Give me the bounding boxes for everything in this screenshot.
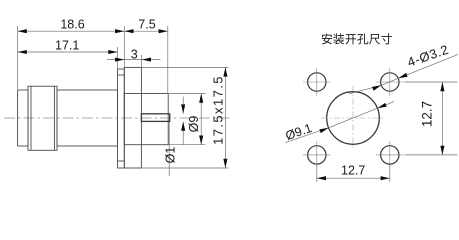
svg-text:17.1: 17.1 xyxy=(55,39,79,53)
4-O3.2 leader to text xyxy=(398,54,458,78)
ext line x167.8 xyxy=(167,26,169,93)
svg-text:12.7: 12.7 xyxy=(341,164,365,178)
dim 3 line left tail xyxy=(107,59,124,61)
arrow dim 3 left xyxy=(115,58,124,62)
center marks xyxy=(303,68,404,169)
title char 装 xyxy=(333,33,344,44)
O9.1 leader tail xyxy=(286,128,329,143)
title char 尺 xyxy=(369,34,380,44)
ext line hole BR down xyxy=(389,166,391,183)
arrow O9.1 upper-right xyxy=(377,103,387,110)
svg-text:Ø9: Ø9 xyxy=(187,116,201,133)
4-O3.2 leader xyxy=(349,54,458,93)
O9 ext line top xyxy=(169,93,206,95)
ext line pin end xyxy=(168,122,170,176)
title char 开 xyxy=(345,34,356,44)
dim 17.1 line xyxy=(18,51,118,53)
title char 安 xyxy=(322,33,332,44)
arrow dim 12.7 right bottom xyxy=(440,146,444,155)
arrow dim O1 top xyxy=(181,104,185,113)
svg-text:17.5x17.5: 17.5x17.5 xyxy=(211,75,226,145)
center pin xyxy=(141,114,169,122)
arrow dim O1 bottom xyxy=(181,122,185,131)
crosshair hole BR horizontal xyxy=(376,154,404,156)
arrow dim 18.6 right xyxy=(115,29,124,33)
gasket inner line top xyxy=(118,74,125,76)
main barrel xyxy=(57,90,118,146)
dimension texts left view xyxy=(55,17,225,163)
front cylinder xyxy=(18,90,28,146)
big circle O9.1 xyxy=(327,92,380,145)
svg-text:4-Ø3.2: 4-Ø3.2 xyxy=(405,42,450,70)
dim 17.5x17.5 line xyxy=(224,67,226,168)
dim 3 line middle xyxy=(124,59,141,61)
nut chamfer left xyxy=(30,86,32,150)
title char 孔 xyxy=(357,34,368,45)
right 12.7 dimension xyxy=(405,82,458,155)
17.5 ext line top xyxy=(141,66,228,68)
ext line hole BL down xyxy=(316,166,318,183)
svg-text:3: 3 xyxy=(131,47,138,61)
gasket xyxy=(118,69,125,168)
arrow dim 3 right xyxy=(142,58,151,62)
dim 12.7 right line xyxy=(441,82,443,155)
rear cylinder xyxy=(124,94,168,145)
svg-text:7.5: 7.5 xyxy=(138,17,155,31)
arrow 4-O3.2 upper-right xyxy=(398,73,408,80)
arrow dim O9 bottom xyxy=(199,136,203,145)
O9.1 leader xyxy=(286,102,395,143)
ext line x124.3 xyxy=(123,26,125,67)
arrow dim 7.5 right xyxy=(159,29,168,33)
big circle centerline horizontal xyxy=(321,117,385,119)
crosshair hole TL vertical xyxy=(316,68,318,96)
ext line hole TR right xyxy=(405,81,458,83)
arrow dim 17.5 bottom xyxy=(223,159,227,168)
arrow dim O9 top xyxy=(199,94,203,103)
ext line x117.5 xyxy=(117,47,119,69)
ext line hole BR right xyxy=(405,154,458,156)
hole bottom-left xyxy=(308,146,326,164)
nut chamfer right xyxy=(53,86,55,150)
crosshair hole BL vertical xyxy=(316,141,318,169)
title 安装开孔尺寸 xyxy=(322,33,392,44)
ext line x141.4 xyxy=(140,55,142,67)
gasket inner line bottom xyxy=(118,160,125,162)
svg-text:12.7: 12.7 xyxy=(420,101,435,127)
arrow dim 12.7 bottom left xyxy=(317,176,326,180)
svg-text:18.6: 18.6 xyxy=(60,17,84,31)
arrow dim 12.7 right top xyxy=(440,82,444,91)
dim 3 line right tail xyxy=(141,59,160,61)
crosshair hole TL horizontal xyxy=(303,81,331,83)
arrow dim 12.7 bottom right xyxy=(381,176,390,180)
4-O3.2 line through hole xyxy=(381,78,398,85)
arrow dim 18.6 left xyxy=(18,29,27,33)
arrow O9.1 lower-left xyxy=(319,126,329,133)
O9.1 leader tail upper xyxy=(377,102,394,109)
O9 ext line bottom xyxy=(169,144,206,146)
arrow dim 7.5 left xyxy=(124,29,133,33)
arrow dim 17.5 top xyxy=(223,67,227,76)
dim 18.6 line xyxy=(18,30,125,32)
dim O9 line xyxy=(200,94,202,145)
hole top-right xyxy=(381,73,399,91)
dimension/extension lines xyxy=(18,26,229,176)
arrow dim 17.1 right xyxy=(108,50,117,54)
svg-text:Ø9.1: Ø9.1 xyxy=(284,121,314,143)
crosshair hole TR horizontal xyxy=(376,81,404,83)
ext line left x17.6 xyxy=(17,26,19,89)
big circle centerline vertical xyxy=(352,86,354,150)
dim 12.7 bottom line xyxy=(317,177,390,179)
flange xyxy=(124,67,141,168)
hole bottom-right xyxy=(381,146,399,164)
crosshair hole TR vertical xyxy=(389,68,391,96)
arrow 4-O3.2 lower-left xyxy=(372,83,382,90)
dim O1 line upper xyxy=(182,97,184,114)
coupling nut xyxy=(28,86,57,150)
bottom 12.7 dimension xyxy=(317,166,390,183)
17.5 ext line bottom xyxy=(141,167,228,169)
title char 寸 xyxy=(381,33,392,44)
svg-text:Ø1: Ø1 xyxy=(164,147,178,164)
hole top-left xyxy=(308,73,326,91)
4-O3.2 leader from big circle xyxy=(349,85,381,94)
crosshair hole BR vertical xyxy=(389,141,391,169)
centerline xyxy=(4,117,232,119)
dim 7.5 line xyxy=(124,30,168,32)
arrow dim 17.1 left xyxy=(18,50,27,54)
O9.1 diameter line xyxy=(329,108,378,128)
crosshair hole BL horizontal xyxy=(303,154,331,156)
dim O1 line lower xyxy=(182,122,184,145)
